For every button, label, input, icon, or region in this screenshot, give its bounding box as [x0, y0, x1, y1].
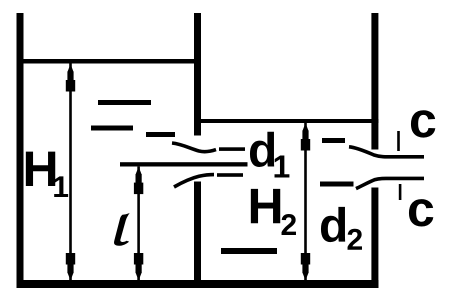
H2 arrowhead bottom — [301, 253, 310, 281]
label c upper — [411, 110, 435, 137]
right tank water surface line — [197, 119, 379, 123]
orifice d2 jet bottom boundary — [356, 178, 424, 188]
label H2 — [251, 189, 280, 223]
left tank surface dash 1 — [98, 100, 151, 105]
right tank wall upper segment — [371, 13, 378, 150]
H2/d2 dimension arrow line — [304, 123, 307, 281]
left tank surface dash 2 — [91, 126, 133, 131]
right tank wall lower segment — [371, 188, 378, 289]
label H1 — [26, 152, 55, 186]
H1 arrowhead top — [66, 64, 75, 92]
orifice d1 jet top dash — [219, 147, 245, 151]
H1 arrowhead bottom — [66, 253, 75, 281]
middle wall upper segment — [194, 13, 201, 136]
l arrowhead top — [134, 167, 143, 195]
left tank wall — [17, 13, 24, 288]
left tank water surface line — [19, 59, 201, 64]
right tank surface dash lower — [320, 182, 354, 187]
H1 dimension arrow line — [69, 64, 72, 281]
left tank surface dash 3 — [146, 132, 175, 137]
tank bottom — [17, 280, 379, 288]
label l — [114, 213, 130, 246]
jet axis centerline — [120, 162, 248, 166]
section c-c upper tick — [397, 131, 400, 151]
middle wall lower segment — [194, 182, 201, 289]
l arrowhead bottom — [134, 253, 143, 281]
l dimension arrow line — [137, 167, 140, 281]
orifice d1 jet top curve — [172, 143, 216, 152]
orifice d1 jet bottom dash — [217, 173, 243, 177]
orifice d1 jet bottom curve — [174, 175, 214, 187]
label d1 — [250, 132, 274, 167]
orifice d2 jet top boundary — [349, 147, 424, 157]
section c-c lower tick — [399, 184, 402, 200]
H2 arrowhead top — [301, 123, 310, 151]
label d2 — [321, 207, 345, 242]
label c lower — [409, 199, 433, 226]
right tank bottom region dash — [221, 248, 277, 254]
right tank surface dash upper — [322, 138, 345, 143]
